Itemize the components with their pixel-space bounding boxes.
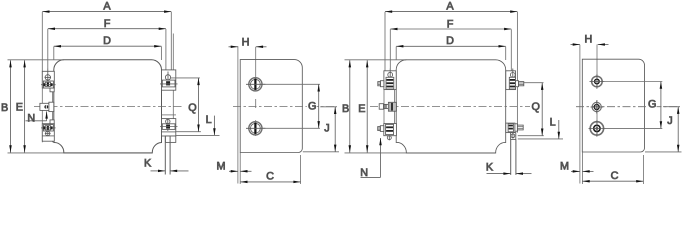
svg-text:M: M xyxy=(560,160,569,172)
dimension A (fig1 overall width) xyxy=(42,1,171,13)
terminal upper-right fig3 xyxy=(506,69,524,90)
terminal block lower-right xyxy=(160,115,178,142)
dimension Q (terminal spacing right) xyxy=(171,78,201,132)
dashed horizontal centerline fig3 xyxy=(370,105,530,107)
dimension H fig4 xyxy=(571,34,609,46)
terminal block upper-left xyxy=(41,69,56,92)
dimension B fig3 xyxy=(342,60,351,152)
dimension J (centerline to base) xyxy=(303,107,339,152)
end face outline xyxy=(240,60,302,153)
dimension M fig4 xyxy=(560,160,594,172)
dimension G fig4 xyxy=(604,82,663,129)
baseline fig3 xyxy=(406,152,495,154)
svg-text:L: L xyxy=(206,114,212,126)
svg-text:F: F xyxy=(104,18,111,30)
svg-text:N: N xyxy=(27,112,35,124)
dashed horizontal centerline fig2 xyxy=(233,106,337,108)
extension line D left xyxy=(395,47,397,60)
stud terminal middle (fig4) xyxy=(591,101,604,114)
dimension D (body width) xyxy=(396,35,506,47)
svg-text:M: M xyxy=(217,160,226,172)
svg-text:Q: Q xyxy=(532,101,540,113)
face left edge extension to M/C xyxy=(239,153,241,185)
dimension N (earth stud position) xyxy=(26,111,48,124)
svg-text:K: K xyxy=(144,157,152,169)
svg-text:N: N xyxy=(360,167,368,179)
extension line A left xyxy=(384,12,386,71)
dimension N fig3 (earth stud position) xyxy=(360,138,381,179)
bottom baseline extension (left) xyxy=(8,152,64,154)
bottom baseline extension fig3 xyxy=(345,152,407,154)
dimension L fig3 xyxy=(518,117,563,139)
dimension D (body width) xyxy=(54,35,162,47)
extension line D right xyxy=(505,47,507,60)
body outline fig3 xyxy=(396,60,506,153)
terminal screw upper (slotted) xyxy=(246,78,265,91)
baseline (case bottom) xyxy=(64,152,153,154)
svg-text:F: F xyxy=(447,18,454,30)
body outline (rounded case with bottom flare fillets) xyxy=(54,60,162,153)
terminal screw lower (slotted) xyxy=(246,122,265,135)
dimension E (height) xyxy=(16,60,26,152)
svg-text:B: B xyxy=(1,102,8,114)
terminal tip plane line fig4 xyxy=(579,45,581,184)
terminal lower-left fig3 xyxy=(378,124,397,141)
svg-text:A: A xyxy=(103,1,111,13)
extension line F left xyxy=(47,29,49,69)
extension line D right xyxy=(160,47,162,61)
dimension L (lower terminal height) xyxy=(176,114,220,135)
svg-text:H: H xyxy=(242,36,250,48)
dashed horizontal centerline xyxy=(34,105,184,107)
dimension K fig3 xyxy=(486,162,532,175)
svg-text:Q: Q xyxy=(188,102,196,114)
face right edge extension fig4 xyxy=(642,155,644,184)
svg-text:L: L xyxy=(550,117,556,129)
dimension E fig3 xyxy=(358,60,368,152)
dimension F (across terminal screws) xyxy=(390,18,511,30)
dimension K (mounting tab width) xyxy=(144,157,189,172)
dimension B (overall height) xyxy=(1,60,12,152)
dimension C fig4 xyxy=(583,170,644,183)
left terminal column rails fig3 xyxy=(383,71,385,136)
svg-text:C: C xyxy=(266,171,274,183)
face right edge extension to C xyxy=(300,155,302,184)
extension line F right (runs down to K) xyxy=(510,29,512,81)
earth stud (left middle) xyxy=(40,102,54,111)
extension line F right (runs down to K) xyxy=(165,29,167,81)
dimension F (across terminal screws) xyxy=(48,18,166,30)
mounting tab extension lines (K) xyxy=(164,136,166,175)
extension line D left xyxy=(53,47,55,61)
terminal block upper-right xyxy=(160,70,178,90)
dimension Q fig3 xyxy=(518,83,544,136)
extension line A right (runs down to K) xyxy=(516,12,518,133)
top extension line (body top level) xyxy=(8,59,64,61)
dimension M (terminal protrusion) xyxy=(217,160,252,172)
svg-text:D: D xyxy=(446,35,454,47)
top extension line fig3 xyxy=(345,59,407,61)
earth stud fig3 (left middle, threaded) xyxy=(379,102,396,111)
svg-text:J: J xyxy=(667,115,672,127)
extension line A left xyxy=(41,12,43,71)
svg-text:B: B xyxy=(342,103,349,115)
right terminal column rail (tip plane) xyxy=(172,34,174,119)
svg-text:G: G xyxy=(648,99,656,111)
svg-text:H: H xyxy=(584,34,592,46)
svg-text:G: G xyxy=(308,100,316,112)
terminal lower-right fig3 xyxy=(506,123,523,175)
extension line A right (runs down to K) xyxy=(170,12,172,87)
svg-text:C: C xyxy=(611,170,619,182)
dimension J fig4 xyxy=(645,107,682,152)
svg-text:J: J xyxy=(324,123,329,135)
terminal upper-left fig3 (stud bolt clamp) xyxy=(378,69,396,90)
extension line F left xyxy=(389,29,391,68)
dimension A (fig3 overall width) xyxy=(385,1,517,13)
svg-text:A: A xyxy=(446,1,454,13)
left terminal column rails xyxy=(41,71,43,142)
terminal block lower-left xyxy=(41,120,56,141)
svg-text:K: K xyxy=(486,162,494,174)
screw column centerline xyxy=(255,47,257,91)
face left edge extension fig4 xyxy=(581,152,583,184)
screw column centerline fig4 xyxy=(596,45,598,89)
dimension H (screw offset from face) xyxy=(229,36,267,48)
dimension C (face width) xyxy=(240,171,300,184)
dimension G (screw spacing) xyxy=(263,84,320,128)
svg-text:E: E xyxy=(16,102,23,114)
svg-text:E: E xyxy=(358,103,365,115)
end face outline fig4 xyxy=(582,59,644,152)
terminal tip plane line xyxy=(237,46,239,183)
dashed horizontal centerline fig4 xyxy=(576,106,680,108)
svg-text:D: D xyxy=(103,35,111,47)
earth stud terminal bottom (fig4, larger) xyxy=(589,120,606,137)
stud terminal top (fig4) xyxy=(590,74,605,89)
